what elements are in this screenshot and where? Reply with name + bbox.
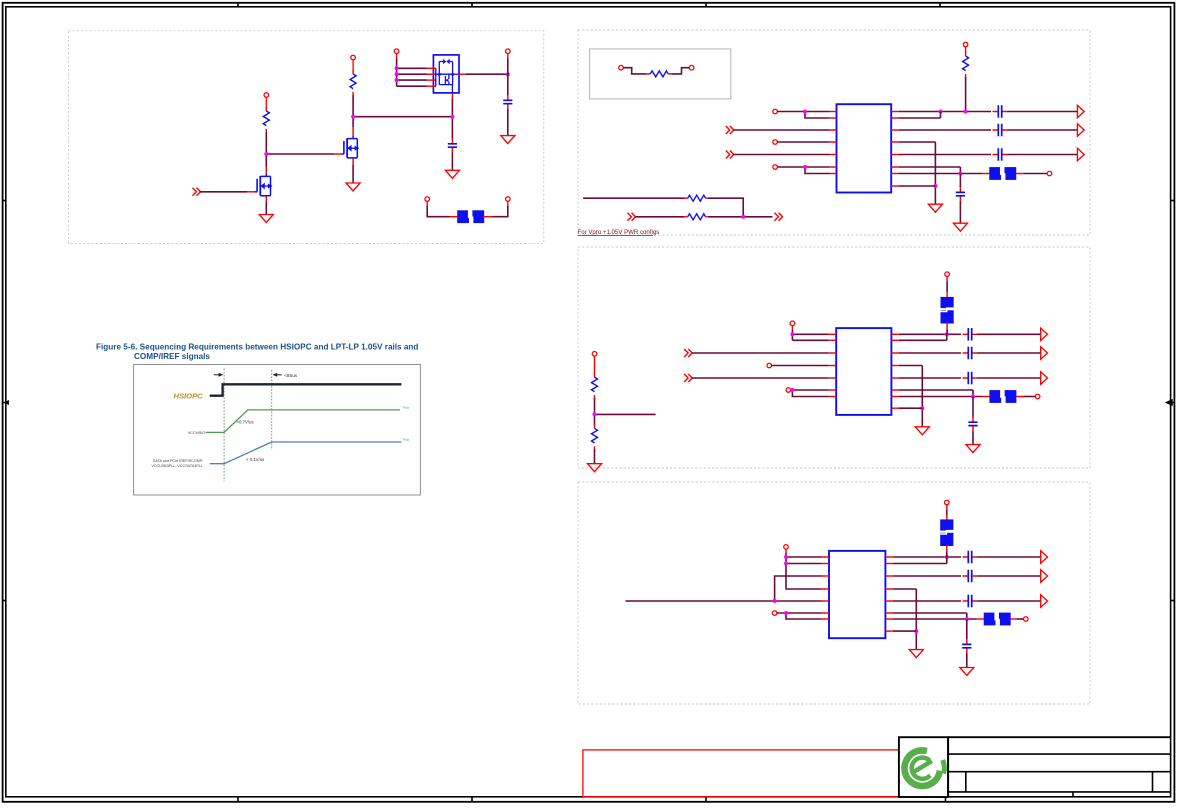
- svg-text:COMP/IREF signals: COMP/IREF signals: [134, 352, 210, 361]
- svg-text:HSIOPC: HSIOPC: [174, 392, 204, 401]
- svg-text:<0.7V/us: <0.7V/us: [237, 419, 254, 424]
- svg-text:< 0.1V/us: < 0.1V/us: [246, 457, 264, 462]
- svg-text:Figure 5-6. Sequencing Require: Figure 5-6. Sequencing Requirements betw…: [96, 343, 418, 352]
- svg-text:<85us: <85us: [284, 373, 298, 379]
- svg-text:Vₓₓₓ: Vₓₓₓ: [403, 436, 410, 441]
- svg-text:For Vpro +1.05V PWR configs: For Vpro +1.05V PWR configs: [578, 229, 660, 236]
- svg-text:Vₓₓₓ: Vₓₓₓ: [403, 405, 410, 410]
- svg-text:VCCUSB3PLL, VCCSATA3PLL: VCCUSB3PLL, VCCSATA3PLL: [151, 464, 203, 468]
- svg-text:VCCHSIO: VCCHSIO: [188, 430, 206, 435]
- svg-text:SATA and PCIe IREF/RCOMP,: SATA and PCIe IREF/RCOMP,: [153, 459, 203, 463]
